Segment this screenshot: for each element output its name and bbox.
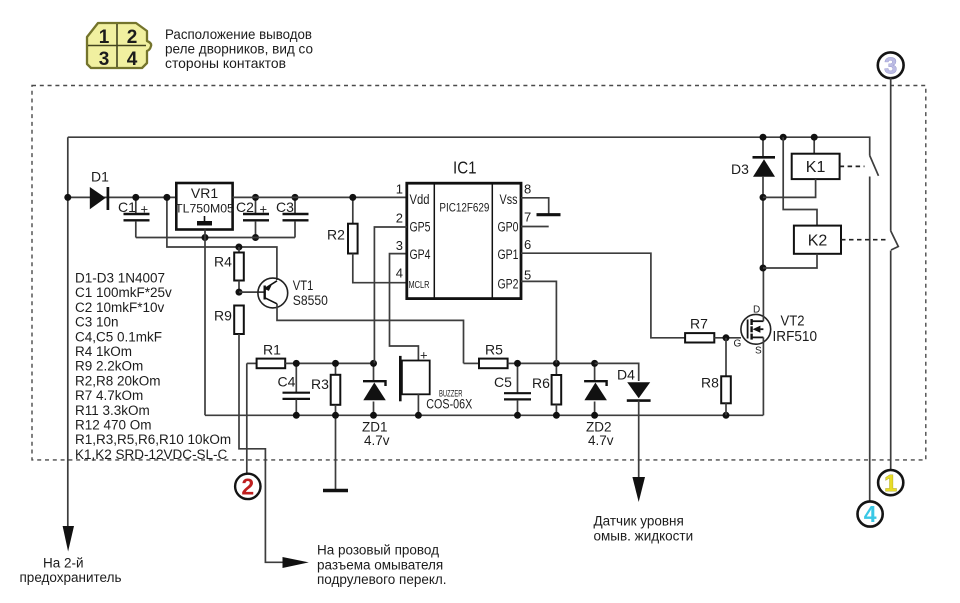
gnd bar pin8: [537, 213, 561, 216]
arrow to level sensor: [632, 477, 645, 502]
svg-text:VT2: VT2: [781, 313, 805, 330]
wire: Vss to ground stub: [521, 198, 549, 214]
resistor R9: [214, 306, 244, 335]
wire: R1 to point 2: [246, 363, 248, 474]
circled 4: [858, 501, 883, 527]
connector pinout symbol: [87, 23, 151, 70]
svg-text:C2: C2: [236, 199, 254, 215]
svg-text:3: 3: [396, 238, 403, 253]
wire: 5V rail to IC pin1: [233, 196, 407, 198]
svg-text:омыв. жидкости: омыв. жидкости: [594, 528, 694, 543]
svg-text:R11 3.3kOm: R11 3.3kOm: [75, 403, 150, 418]
svg-text:C5: C5: [494, 374, 512, 390]
svg-text:R3: R3: [311, 376, 329, 392]
arrow to washer stalk: [283, 557, 309, 568]
resistor R3: [311, 360, 340, 405]
svg-text:G: G: [734, 339, 742, 350]
resistor R4: [214, 247, 244, 292]
svg-text:4: 4: [864, 501, 877, 527]
circled 1: [878, 470, 903, 496]
ground: [323, 489, 348, 492]
svg-text:GP5: GP5: [410, 220, 431, 235]
svg-text:C3 10n: C3 10n: [75, 315, 119, 330]
wire: VT2 source down: [762, 337, 764, 415]
svg-text:D1: D1: [91, 169, 109, 185]
svg-text:2: 2: [241, 474, 254, 500]
svg-text:D1-D3 1N4007: D1-D3 1N4007: [75, 271, 165, 286]
svg-text:Vss: Vss: [500, 192, 518, 207]
svg-text:S8550: S8550: [293, 292, 328, 308]
svg-text:R5: R5: [485, 342, 503, 358]
node R4/R9/VT1 base: [236, 289, 243, 296]
node buzzer-gnd: [415, 412, 422, 419]
capacitor C3: [276, 194, 309, 238]
svg-text:R7: R7: [690, 316, 708, 332]
svg-text:R2: R2: [327, 227, 345, 243]
svg-text:C2 10mkF*10v: C2 10mkF*10v: [75, 300, 165, 315]
svg-text:3: 3: [99, 49, 110, 70]
node VR1-gnd on cap rail: [202, 234, 209, 241]
capacitor C4: [278, 360, 311, 415]
relay K2: [763, 134, 888, 268]
node R3-gnd: [332, 412, 339, 419]
wire: 12V input line: [68, 196, 177, 198]
svg-text:4.7v: 4.7v: [364, 433, 390, 448]
svg-text:+: +: [141, 202, 149, 217]
svg-text:+: +: [260, 202, 268, 217]
node R8-gnd: [723, 412, 730, 419]
wire: GP5 to node row: [374, 227, 406, 363]
resistor R1: [247, 342, 285, 369]
svg-text:стороны контактов: стороны контактов: [165, 55, 286, 71]
svg-text:IRF510: IRF510: [773, 328, 818, 345]
svg-text:MCLR: MCLR: [409, 279, 430, 291]
svg-text:1: 1: [396, 182, 403, 197]
component values list: [75, 271, 231, 462]
svg-text:подрулевого перекл.: подрулевого перекл.: [317, 572, 447, 587]
svg-text:R9: R9: [214, 308, 232, 324]
svg-text:D3: D3: [731, 161, 749, 177]
svg-text:Vdd: Vdd: [410, 192, 430, 207]
label: level sensor: [594, 514, 694, 544]
capacitor C1: [118, 194, 150, 238]
svg-text:GP4: GP4: [410, 247, 431, 262]
wire: down to point 1: [890, 251, 892, 471]
svg-text:R1,R3,R5,R6,R10 10kOm: R1,R3,R5,R6,R10 10kOm: [75, 432, 231, 447]
svg-text:K2: K2: [808, 233, 828, 250]
wire: base link: [239, 291, 264, 293]
buzzer COS-06X: [400, 348, 472, 416]
svg-text:C1: C1: [118, 199, 136, 215]
circled 3: [878, 52, 904, 78]
wire: main ground rail: [205, 414, 763, 416]
svg-text:R4: R4: [214, 254, 232, 270]
node ZD1-gnd: [370, 412, 377, 419]
svg-text:Датчик уровня: Датчик уровня: [594, 514, 684, 529]
wire: down to point 4: [869, 177, 871, 502]
wire: node row right: [518, 362, 595, 364]
MOSFET VT2: [734, 305, 818, 357]
node input-left: [64, 194, 71, 201]
wire: VR1 ground drop: [204, 230, 206, 416]
label: pink wire note: [317, 543, 447, 588]
svg-text:6: 6: [524, 237, 531, 252]
svg-text:COS-06X: COS-06X: [426, 396, 472, 411]
node C5-gnd: [514, 412, 521, 419]
svg-text:VT1: VT1: [293, 277, 314, 293]
wire: VT1 collector run: [277, 304, 464, 364]
svg-text:+: +: [420, 348, 428, 363]
svg-text:IC1: IC1: [453, 158, 477, 178]
resistor R5: [464, 342, 518, 369]
wire: GP2 down: [521, 281, 556, 363]
svg-text:C4,C5 0.1mkF: C4,C5 0.1mkF: [75, 329, 162, 344]
resistor R6: [532, 360, 561, 415]
svg-text:4.7v: 4.7v: [588, 433, 614, 448]
svg-text:GP1: GP1: [498, 247, 519, 262]
wire: capacitor ground rail: [136, 237, 295, 239]
wire: GP0 stub: [521, 226, 549, 228]
svg-text:На 2-й: На 2-й: [43, 556, 84, 571]
svg-text:3: 3: [884, 53, 897, 79]
wire: mid node row: [285, 362, 373, 364]
svg-text:1: 1: [99, 27, 110, 48]
transistor VT1: [258, 277, 328, 308]
capacitor C5: [494, 360, 531, 415]
svg-text:K1,K2 SRD-12VDC-SL-C: K1,K2 SRD-12VDC-SL-C: [75, 447, 228, 462]
node C4-gnd: [293, 412, 300, 419]
svg-text:предохранитель: предохранитель: [20, 570, 122, 585]
diode D1: [90, 169, 109, 211]
arrow to fuse: [63, 526, 74, 552]
dashed border box: [32, 86, 926, 460]
svg-text:VR1: VR1: [191, 185, 218, 201]
svg-text:R8: R8: [701, 375, 719, 391]
svg-text:2: 2: [396, 211, 403, 226]
capacitor C2: [236, 194, 269, 241]
wire: GP1 to R7: [521, 253, 685, 338]
node 12V branch: [163, 194, 170, 201]
svg-text:5: 5: [524, 268, 531, 283]
svg-text:C1 100mkF*25v: C1 100mkF*25v: [75, 285, 172, 300]
wire: R9 to pink-wire arrow: [239, 334, 284, 562]
svg-text:D: D: [753, 305, 760, 316]
node ZD2-gnd: [591, 412, 598, 419]
svg-text:R12 470 Om: R12 470 Om: [75, 418, 152, 433]
svg-text:R2,R8 20kOm: R2,R8 20kOm: [75, 373, 161, 388]
connector caption: [165, 26, 313, 71]
wire: GP4 to buzzer plus: [390, 254, 419, 361]
wire + ground below R3: [335, 405, 337, 490]
resistor R2: [327, 194, 358, 254]
wire: point 3 down to switch: [890, 78, 892, 231]
svg-text:R7 4.7kOm: R7 4.7kOm: [75, 388, 143, 403]
diode D3: [731, 134, 775, 272]
wire: top rail: [68, 137, 870, 155]
resistor R7: [685, 316, 741, 343]
node R6-gnd: [553, 412, 560, 419]
svg-text:8: 8: [524, 182, 531, 197]
svg-text:R6: R6: [532, 375, 550, 391]
circled 2: [235, 474, 260, 500]
svg-text:R4 1kOm: R4 1kOm: [75, 344, 132, 359]
svg-text:разъема омывателя: разъема омывателя: [317, 557, 443, 572]
svg-text:4: 4: [127, 49, 138, 70]
regulator VR1: [175, 183, 234, 230]
switch contact K1: [870, 156, 879, 176]
resistor R8: [701, 338, 731, 416]
zener ZD1: [362, 360, 390, 448]
svg-text:C3: C3: [276, 199, 294, 215]
svg-text:2: 2: [127, 27, 138, 48]
svg-text:7: 7: [524, 209, 531, 224]
zener ZD2: [584, 360, 614, 448]
svg-text:1: 1: [884, 470, 897, 496]
wire: VT2 drain up: [762, 268, 764, 321]
svg-text:C4: C4: [278, 374, 296, 390]
wire: left vertical feed: [67, 137, 69, 527]
svg-text:На розовый провод: На розовый провод: [317, 543, 439, 558]
wire: R2 bottom to MCLR: [353, 254, 407, 283]
svg-text:R9 2.2kOm: R9 2.2kOm: [75, 359, 143, 374]
diode D4: [595, 363, 651, 478]
svg-text:PIC12F629: PIC12F629: [439, 203, 489, 215]
wire: 12V branch to R4 and VT1 emitter: [167, 197, 277, 280]
svg-text:TL750M05: TL750M05: [175, 202, 234, 216]
label: to fuse: [20, 556, 122, 586]
svg-text:S: S: [755, 346, 762, 357]
relay K1: [763, 134, 865, 198]
svg-text:4: 4: [396, 265, 403, 280]
IC1 PIC12F629: [396, 158, 531, 299]
svg-text:GP0: GP0: [498, 220, 519, 235]
svg-text:GP2: GP2: [498, 277, 519, 292]
svg-text:K1: K1: [806, 159, 826, 176]
svg-text:D4: D4: [617, 367, 635, 383]
node R4 top: [235, 244, 242, 251]
svg-text:R1: R1: [263, 342, 281, 358]
switch contact K2: [891, 231, 899, 250]
